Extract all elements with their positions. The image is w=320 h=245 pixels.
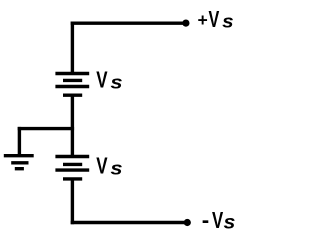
wire vertical between battery V1 and battery V2 xyxy=(71,95,74,156)
battery V2 (lower Vs source) xyxy=(55,157,89,179)
svg-text:V: V xyxy=(96,66,108,92)
svg-text:V: V xyxy=(96,152,108,178)
label -Vs xyxy=(202,207,236,234)
svg-text:V: V xyxy=(212,207,224,233)
svg-text:V: V xyxy=(209,6,220,32)
battery V2 plate long (positive) xyxy=(55,155,89,158)
wire vertical from battery V2 negative plate to bottom wire xyxy=(71,179,74,224)
wire bottom horizontal to -Vs terminal xyxy=(71,221,188,224)
ground bar 1 (widest) xyxy=(4,154,34,157)
ground symbol xyxy=(4,156,34,169)
svg-text:-: - xyxy=(202,208,209,233)
battery V2 plate short xyxy=(63,163,82,166)
node +Vs terminal dot xyxy=(182,20,189,27)
svg-text:s: s xyxy=(224,212,236,234)
wire top horizontal to +Vs terminal xyxy=(71,22,186,25)
svg-text:s: s xyxy=(110,72,122,92)
label +Vs xyxy=(198,6,234,32)
battery V1 (upper Vs source) xyxy=(55,74,89,96)
battery V1 plate long (positive) xyxy=(55,72,89,75)
battery V1 plate short (negative) xyxy=(63,79,82,82)
wire horizontal ground branch xyxy=(18,127,74,130)
label Vs (upper battery value) xyxy=(96,66,122,92)
battery V1 plate long 2 xyxy=(55,85,89,88)
wire vertical from top wire to battery V1 positive plate xyxy=(71,22,74,74)
battery V2 plate long 2 xyxy=(55,168,89,171)
label Vs (lower battery value) xyxy=(96,152,122,178)
battery V2 plate short 2 (negative) xyxy=(63,177,82,180)
ground bar 2 (middle) xyxy=(11,161,28,164)
node -Vs terminal dot xyxy=(184,219,191,226)
svg-text:s: s xyxy=(110,158,122,178)
svg-text:s: s xyxy=(222,11,234,31)
wire vertical ground stub xyxy=(18,127,21,156)
ground bar 3 (shortest) xyxy=(15,167,24,170)
battery V1 plate short 2 xyxy=(63,93,82,96)
svg-text:+: + xyxy=(198,10,208,30)
